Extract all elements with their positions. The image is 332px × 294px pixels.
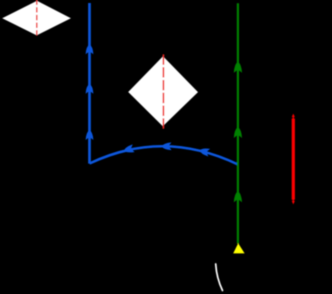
blue beam arrowhead 1 <box>86 44 94 54</box>
blue beam arrowhead 3 <box>86 130 94 140</box>
curve arrowhead 3 <box>199 147 210 157</box>
polarizer plate P2 (square diamond, middle) <box>128 56 198 126</box>
axis line of P1 (red dashed) <box>36 0 38 37</box>
blue beam arrowhead 2 <box>86 84 94 94</box>
red double-arrow bottom tip <box>292 199 295 205</box>
white arc (bottom curve) <box>216 264 223 291</box>
green beam arrowhead 3 <box>234 191 242 202</box>
polarizer plate P1 (tilted diamond, top-left) <box>2 1 71 36</box>
red polarization double-arrow (right) <box>292 119 295 200</box>
curve arrowhead 2 <box>161 142 171 150</box>
blue curved arrow (deflection path from green beam to blue beam) <box>90 146 239 164</box>
green beam arrowhead 2 <box>234 127 242 138</box>
green beam (vertical ray, right) <box>237 3 239 244</box>
green beam arrowhead 1 <box>234 62 242 73</box>
blue beam (vertical ray, left) <box>88 3 91 164</box>
red double-arrow top tip <box>292 114 295 120</box>
curve arrowhead 1 <box>123 144 135 154</box>
axis line of P2 (red dashed) <box>162 54 164 129</box>
yellow light source triangle <box>233 243 244 253</box>
